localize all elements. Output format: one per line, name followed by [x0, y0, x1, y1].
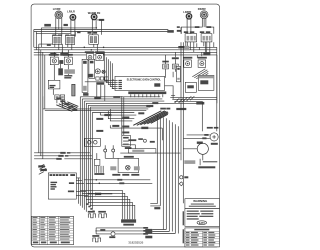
svg-text:318255526: 318255526 [128, 241, 143, 245]
second narrow board [89, 59, 95, 78]
lower selector pair [55, 95, 65, 100]
pilot lamp [102, 70, 105, 73]
surface element RF dual [198, 7, 208, 18]
EOC terminal strip below [128, 92, 166, 95]
right lower verticals [150, 115, 178, 233]
top bus wires [34, 27, 171, 50]
cluster at left of verticals [145, 207, 160, 238]
svg-text:RF/RF: RF/RF [198, 7, 207, 11]
small selector dark box [58, 68, 63, 75]
fan-out to bottom connector [80, 190, 135, 219]
surface element RF small [183, 10, 192, 19]
svg-text:LR/LR: LR/LR [67, 10, 75, 14]
svg-text:WARNING: WARNING [193, 199, 208, 203]
wire leads of element RF [187, 18, 191, 34]
hatched terminal strip [64, 69, 75, 74]
EOC exit stubs below strip [131, 94, 163, 97]
connector arrows on dual element wires [177, 26, 211, 32]
oven light switch [162, 61, 169, 69]
bottom connector bundle [121, 219, 136, 225]
right relay K1 [183, 46, 192, 68]
DLB relay [85, 138, 101, 146]
infinite switch 1 [52, 35, 62, 45]
selector switch 1 [49, 54, 59, 65]
surface element LF (circle, top-left) [53, 7, 63, 19]
small circle terminal [180, 176, 189, 179]
wire leads of element LR [71, 19, 75, 35]
lower mid wire [88, 193, 113, 196]
aux box [185, 82, 196, 92]
bundle end hatch marks [174, 96, 194, 103]
vertical hatched bar [72, 84, 75, 96]
bus wires right of bundle [170, 47, 217, 131]
left vertical bus [39, 47, 45, 159]
oven light [184, 55, 219, 141]
page border frame [31, 4, 219, 247]
surface element LR [67, 10, 76, 21]
oven relay box [198, 75, 214, 90]
net label right bus [176, 108, 203, 144]
infinite switch 2 [65, 35, 75, 45]
broil element symbol 2 [98, 211, 106, 218]
diamond connector [179, 182, 183, 186]
infinite switch 3 [88, 32, 99, 44]
bake element [94, 159, 104, 175]
surface element RR [88, 11, 101, 20]
ESEC control board (big box bottom-left) [48, 173, 88, 199]
wire leads of element RR [92, 19, 96, 35]
svg-text:ELECTRONIC OVEN CONTROL: ELECTRONIC OVEN CONTROL [127, 80, 162, 82]
left column interconnect wires [53, 50, 68, 107]
tiny lamp pair [97, 145, 118, 159]
lower terminal row center [85, 77, 109, 101]
text block under strip [64, 75, 72, 78]
pilot switch A [85, 51, 95, 60]
small relay block between selectors [59, 60, 63, 64]
twisted wire bundle right [192, 69, 208, 80]
pilot switch B [95, 51, 105, 60]
C3 branch wire [97, 20, 103, 35]
wire labels on buses [47, 44, 211, 55]
door latch switch [172, 57, 179, 69]
junction dots [62, 47, 105, 54]
relay terminal box [122, 135, 131, 146]
switch lead wires [39, 32, 210, 55]
warning box [185, 199, 220, 227]
right side components row [184, 159, 217, 169]
bus corner staircase right [197, 42, 217, 103]
wire code table bottom-right [185, 228, 220, 247]
terminal block wide [128, 149, 156, 153]
junction staircase [86, 203, 94, 212]
broil element symbol 1 [88, 211, 96, 218]
motor assembly box [110, 156, 139, 176]
vertical text column right margin [183, 211, 184, 243]
wire labels near element leads [44, 19, 104, 33]
connector pair on bus [167, 30, 174, 33]
center horizontal wires [84, 179, 152, 184]
component row at 139-145 [128, 138, 155, 142]
latch switch wires [166, 52, 176, 78]
left twisted bundle [56, 102, 78, 112]
wire fan-out of dual element [181, 18, 214, 34]
right twisted bundle [133, 111, 168, 126]
right main verticals [181, 27, 183, 203]
infinite switch 5 (right) [200, 31, 212, 42]
wire color labels left [38, 165, 47, 171]
mid bus wires (4 long horizontals) [34, 47, 217, 55]
junction component on upper bus [113, 96, 204, 104]
wire leads of element LF [55, 18, 62, 36]
component chart table bottom-left [32, 216, 74, 244]
wire from EOC right to door sw [165, 72, 176, 99]
vertical bus right of ESEC [79, 97, 93, 212]
lower element symbol [92, 235, 100, 242]
clock box [48, 80, 60, 89]
right relay K2 [198, 57, 207, 68]
svg-text:EATC: EATC [199, 222, 206, 225]
horizontal bus group center [43, 96, 201, 112]
diagonal wire marks left of ESEC [38, 164, 46, 174]
diagram part number [128, 241, 143, 245]
arrow terminals on left wires [56, 152, 70, 160]
svg-text:LF/RF: LF/RF [53, 7, 61, 11]
left narrow board [82, 59, 88, 95]
probe jack component [88, 69, 101, 78]
selector switch 2 [63, 54, 73, 65]
bottom wires [95, 228, 148, 236]
infinite switch 4 (right) [184, 31, 197, 42]
convection motor [183, 143, 218, 161]
electronic oven control board [115, 76, 165, 90]
long wire y152 [34, 153, 180, 159]
narrow edge connector left of relays [177, 66, 181, 82]
wire drop labels mid right [100, 96, 162, 140]
wires into EOC left pins [104, 52, 115, 88]
